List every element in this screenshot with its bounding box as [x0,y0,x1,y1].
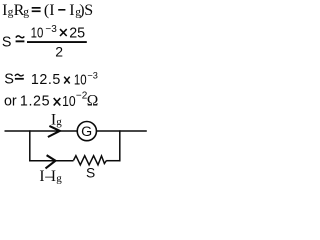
svg-text:or: or [4,93,17,109]
svg-text:Ω: Ω [87,93,99,110]
svg-text:2: 2 [55,44,63,60]
svg-text:g: g [23,7,29,19]
svg-text:−3: −3 [45,24,57,35]
equation line 4: or 1.25 x 10^-2 ohm [4,91,98,110]
fraction bar [27,41,87,43]
approx-equal sign [16,36,24,38]
wire left branch vertical [29,130,31,161]
galvanometer G circle [77,122,96,141]
multiplication x [54,98,61,106]
svg-text:I: I [69,2,74,19]
wire right branch vertical [119,130,121,161]
equation line 1: IgRg = (I - Ig)S [2,2,93,19]
svg-text:I: I [39,168,44,185]
svg-text:−3: −3 [87,71,97,81]
svg-text:S: S [86,166,95,181]
multiplication x [60,29,67,36]
equation line 2: S ~= (10^-3 x 25)/2 [2,24,87,60]
multiplication x [64,77,70,84]
svg-text:10: 10 [74,71,87,88]
numerator 10^-3 x 25 [31,24,44,41]
svg-text:1.25: 1.25 [20,93,50,109]
svg-text:12.5: 12.5 [31,72,61,88]
svg-text:G: G [81,124,92,140]
equation line 3: S ~= 12.5 x 10^-3 [4,71,98,88]
svg-text:10: 10 [31,24,44,41]
arrow Ig on top wire [48,126,60,137]
arrow I-Ig on bottom wire [46,155,56,168]
wire bottom right [106,160,120,162]
svg-text:g: g [56,172,62,184]
svg-text:g: g [56,116,62,128]
svg-text:S: S [84,2,93,19]
svg-text:S: S [2,35,12,51]
svg-text:I: I [51,168,56,185]
circuit [5,130,147,165]
resistor S zigzag [74,156,107,165]
svg-text:25: 25 [69,26,85,42]
svg-text:(I: (I [44,2,55,19]
svg-text:10: 10 [62,93,76,109]
approx-equal sign [15,74,24,76]
wire bottom left [29,160,73,162]
svg-text:S: S [4,72,14,88]
wire top right [97,130,147,132]
wire top left [5,130,78,132]
